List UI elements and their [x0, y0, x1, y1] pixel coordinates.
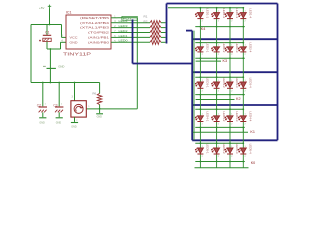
- wire group 2 top: [195, 42, 243, 44]
- bus right vertical: [277, 4, 279, 141]
- svg-text:(XTAL2/PB4: (XTAL2/PB4: [80, 21, 110, 25]
- svg-text:LED3-3: LED3-3: [235, 78, 239, 89]
- svg-text:2: 2: [231, 90, 233, 92]
- svg-text:2: 2: [218, 21, 220, 23]
- svg-text:1: 1: [45, 103, 47, 105]
- capacitor C3: [58, 83, 60, 107]
- svg-text:LED4-1: LED4-1: [206, 111, 210, 122]
- svg-text:LED1-1: LED1-1: [206, 8, 210, 19]
- svg-text:1: 1: [218, 10, 220, 12]
- ground below R6: [99, 109, 101, 113]
- LED2-2: [214, 47, 220, 51]
- svg-text:(AIN0/PB0: (AIN0/PB0: [88, 40, 110, 44]
- node C1-GND junction: [50, 48, 52, 50]
- svg-text:2: 2: [202, 124, 204, 126]
- svg-text:LED3: LED3: [119, 24, 129, 28]
- svg-text:LED1-2: LED1-2: [222, 8, 226, 19]
- svg-text:2: 2: [76, 120, 78, 122]
- svg-text:R2: R2: [144, 19, 148, 23]
- LED2-1: [197, 47, 203, 51]
- svg-text:K1: K1: [250, 130, 255, 134]
- LED4-2: [214, 116, 220, 121]
- IC1 TINY11P microcontroller: [66, 15, 111, 49]
- svg-text:LED5-3: LED5-3: [235, 144, 239, 155]
- svg-text:LED5-4: LED5-4: [249, 144, 253, 155]
- resistor R4: [118, 36, 151, 38]
- bus spine connector: [186, 30, 192, 32]
- wire LED column 3 vertical: [229, 8, 231, 162]
- LED2-3: [227, 47, 233, 51]
- svg-text:TINY11P: TINY11P: [63, 52, 91, 57]
- svg-text:GND: GND: [39, 122, 45, 125]
- resistor R3: [118, 32, 151, 34]
- svg-text:1: 1: [88, 106, 90, 108]
- svg-text:2: 2: [202, 156, 204, 158]
- svg-text:1: 1: [218, 114, 220, 116]
- svg-text:LED2-3: LED2-3: [235, 42, 239, 53]
- node +5V junction: [49, 24, 51, 26]
- wire C1 top stub: [46, 25, 48, 36]
- svg-text:3: 3: [72, 95, 74, 98]
- svg-text:LED4-4: LED4-4: [249, 111, 253, 122]
- svg-text:1: 1: [202, 45, 204, 47]
- svg-text:1: 1: [218, 45, 220, 47]
- wire GND pin connection: [60, 42, 62, 49]
- svg-text:2: 2: [218, 90, 220, 92]
- wire group 1 bottom: [195, 26, 245, 28]
- svg-text:2: 2: [245, 156, 247, 158]
- svg-text:2: 2: [218, 124, 220, 126]
- LED1-1: [197, 13, 203, 18]
- svg-text:1: 1: [245, 10, 247, 12]
- potentiometer trimmer: [74, 83, 76, 101]
- wire LED column 4 vertical: [242, 8, 244, 162]
- svg-text:(RESET/PB5: (RESET/PB5: [80, 16, 110, 20]
- svg-text:1: 1: [231, 10, 233, 12]
- svg-text:R1: R1: [144, 15, 148, 19]
- svg-text:LED2-1: LED2-1: [206, 42, 210, 53]
- svg-text:GND: GND: [97, 116, 103, 119]
- svg-text:1: 1: [231, 146, 233, 148]
- svg-text:R6: R6: [92, 91, 96, 95]
- ground GND symbol: [47, 67, 56, 69]
- svg-text:LED3-4: LED3-4: [249, 78, 253, 89]
- svg-text:GND: GND: [56, 122, 62, 125]
- wire bottom rail: [31, 82, 100, 84]
- wire group 4 K rail: [193, 131, 248, 133]
- svg-text:2: 2: [245, 21, 247, 23]
- svg-text:LED1-4: LED1-4: [249, 8, 253, 19]
- wire RESET label outline: [122, 16, 137, 20]
- svg-text:1: 1: [231, 80, 233, 82]
- svg-text:1: 1: [218, 146, 220, 148]
- svg-text:GND: GND: [58, 64, 64, 68]
- svg-text:1: 1: [231, 45, 233, 47]
- svg-text:GND: GND: [71, 126, 77, 129]
- LED1-4: [240, 13, 246, 18]
- LED5-3: [227, 148, 233, 153]
- svg-text:C1: C1: [45, 30, 49, 34]
- wire group 1 top: [168, 7, 243, 9]
- wire RESET row: [118, 17, 138, 19]
- svg-text:GND: GND: [70, 40, 78, 44]
- svg-text:LED4: LED4: [119, 19, 129, 23]
- resistor R6: [99, 83, 101, 94]
- svg-text:K0: K0: [251, 161, 256, 165]
- bus row 1: [192, 38, 277, 40]
- svg-text:1: 1: [202, 80, 204, 82]
- capacitor C2: [42, 83, 44, 107]
- svg-text:LED0: LED0: [119, 39, 129, 43]
- wire group 5 K rail: [195, 167, 249, 169]
- LED4-4: [240, 116, 246, 121]
- svg-text:1: 1: [245, 80, 247, 82]
- svg-text:1: 1: [245, 114, 247, 116]
- svg-text:2: 2: [231, 54, 233, 56]
- resistor R2: [118, 27, 151, 29]
- svg-text:(XTAL1/PB3: (XTAL1/PB3: [80, 26, 110, 30]
- bus row 2: [192, 71, 277, 73]
- svg-text:2: 2: [202, 90, 204, 92]
- wire +5V vertical: [49, 9, 51, 25]
- node group 5 junctions: [200, 142, 202, 144]
- node group 4 junctions: [200, 108, 202, 110]
- svg-text:1: 1: [61, 103, 63, 105]
- wire group 4 bottom: [195, 126, 245, 128]
- svg-text:2: 2: [202, 54, 204, 56]
- svg-text:VCC: VCC: [70, 36, 78, 40]
- svg-text:1: 1: [231, 114, 233, 116]
- svg-text:LED4-2: LED4-2: [222, 111, 226, 122]
- svg-text:+5V: +5V: [39, 6, 44, 10]
- node group 1 junctions: [200, 7, 202, 9]
- svg-text:2: 2: [218, 156, 220, 158]
- svg-text:LED5-1: LED5-1: [206, 144, 210, 155]
- svg-text:LED3-2: LED3-2: [222, 78, 226, 89]
- wire group 2 K rail: [196, 60, 221, 62]
- svg-text:K2: K2: [236, 97, 241, 101]
- wire group 3 bottom: [195, 94, 245, 96]
- wire group 2 bottom: [195, 57, 245, 59]
- resistor R5: [118, 41, 151, 43]
- wire group 5 bottom: [195, 161, 245, 163]
- LED4-1: [197, 116, 203, 121]
- svg-text:IC1: IC1: [66, 10, 72, 14]
- bus spine vertical: [191, 31, 193, 141]
- svg-text:(AIN1/PB1: (AIN1/PB1: [88, 36, 110, 40]
- wire VCC pin connection: [61, 25, 63, 38]
- LED1-3: [227, 13, 233, 18]
- svg-text:2: 2: [245, 124, 247, 126]
- wire top horizontal: [31, 24, 62, 26]
- bus row 3: [192, 104, 277, 106]
- wire group 5 top: [195, 142, 243, 144]
- LED5-2: [214, 148, 220, 153]
- wire RESET vertical: [136, 18, 138, 109]
- LED1-2: [214, 13, 220, 18]
- bus A horizontal: [133, 63, 193, 65]
- wire gnd horizontal: [47, 48, 61, 50]
- LED2-4: [240, 47, 246, 51]
- svg-text:2: 2: [202, 21, 204, 23]
- wire left rail vertical: [30, 25, 32, 83]
- node R6 bottom junction: [99, 108, 101, 110]
- svg-text:1: 1: [245, 45, 247, 47]
- wire group 4 top: [195, 108, 243, 110]
- svg-text:LED1-3: LED1-3: [235, 8, 239, 19]
- svg-text:LED2-2: LED2-2: [222, 42, 226, 53]
- resistor R1: [118, 22, 151, 24]
- wire pot to RESET horizontal: [86, 108, 137, 110]
- svg-text:1: 1: [202, 146, 204, 148]
- svg-text:2: 2: [231, 124, 233, 126]
- svg-text:1: 1: [202, 114, 204, 116]
- svg-text:1: 1: [218, 80, 220, 82]
- wire LED column 2 vertical: [216, 8, 218, 162]
- svg-text:K3: K3: [223, 59, 228, 63]
- svg-text:LED2: LED2: [119, 29, 129, 33]
- svg-text:LED5-2: LED5-2: [222, 144, 226, 155]
- svg-text:1: 1: [202, 10, 204, 12]
- LED5-4: [240, 148, 246, 153]
- svg-text:LED1: LED1: [119, 34, 129, 38]
- bus left vertical: [166, 4, 168, 44]
- svg-text:LED3-1: LED3-1: [206, 78, 210, 89]
- wire group 3 K rail: [196, 99, 235, 101]
- LED4-3: [227, 116, 233, 121]
- node group 3 junctions: [200, 76, 202, 78]
- bus top horizontal: [167, 3, 278, 5]
- bus A vertical: [132, 19, 134, 63]
- LED3-4: [240, 82, 246, 88]
- wire GND net down: [49, 49, 51, 83]
- wire bus-left green vertical: [193, 31, 195, 141]
- bus row 4: [192, 139, 277, 141]
- svg-text:2: 2: [231, 21, 233, 23]
- svg-text:(T0/PB2: (T0/PB2: [88, 31, 110, 35]
- svg-text:K4: K4: [201, 27, 206, 31]
- svg-text:LED2-4: LED2-4: [249, 42, 253, 53]
- svg-text:2: 2: [231, 156, 233, 158]
- wire group 3 top: [195, 76, 243, 78]
- LED3-3: [227, 82, 233, 88]
- wire C1 bottom stub: [46, 42, 48, 50]
- LED3-1: [197, 82, 203, 88]
- LED3-2: [214, 82, 220, 88]
- LED5-1: [197, 148, 203, 153]
- svg-text:2: 2: [218, 54, 220, 56]
- IC1 right pin stubs with pin numbers: [111, 17, 118, 19]
- node rail junctions: [42, 82, 44, 84]
- svg-text:2: 2: [245, 90, 247, 92]
- svg-text:LED4-3: LED4-3: [235, 111, 239, 122]
- svg-text:1: 1: [245, 146, 247, 148]
- wire LED column 1 vertical: [199, 8, 201, 162]
- node group 2 junctions: [200, 42, 202, 44]
- svg-text:2: 2: [245, 54, 247, 56]
